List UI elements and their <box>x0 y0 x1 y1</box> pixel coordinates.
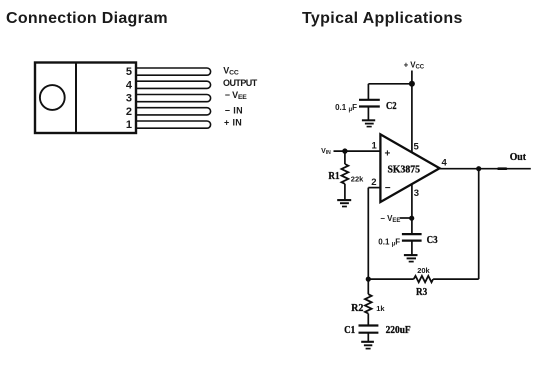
svg-text:3: 3 <box>414 188 419 199</box>
svg-text:−: − <box>385 183 391 194</box>
svg-text:C2: C2 <box>386 100 397 112</box>
svg-text:2: 2 <box>126 106 132 118</box>
svg-text:OUTPUT: OUTPUT <box>223 78 258 88</box>
svg-text:− VEE: − VEE <box>380 214 400 224</box>
svg-text:R2: R2 <box>351 302 364 314</box>
svg-text:− VEE: − VEE <box>225 90 248 101</box>
svg-text:+: + <box>385 149 391 160</box>
svg-text:0.1 μF: 0.1 μF <box>378 237 400 247</box>
svg-text:SK3875: SK3875 <box>388 165 421 176</box>
svg-text:Connection Diagram: Connection Diagram <box>6 10 168 27</box>
svg-text:220uF: 220uF <box>386 325 411 336</box>
svg-text:R1: R1 <box>328 170 339 182</box>
svg-text:22k: 22k <box>351 175 364 184</box>
svg-text:3: 3 <box>126 93 132 105</box>
svg-text:C3: C3 <box>427 234 438 246</box>
svg-text:2: 2 <box>371 177 376 188</box>
svg-text:Out: Out <box>510 151 527 163</box>
svg-text:5: 5 <box>414 141 420 152</box>
svg-text:1k: 1k <box>376 304 385 313</box>
svg-text:1: 1 <box>126 119 132 131</box>
svg-text:+ VCC: + VCC <box>404 61 425 71</box>
svg-text:0.1 μF: 0.1 μF <box>335 103 357 113</box>
svg-text:4: 4 <box>126 79 133 91</box>
svg-text:5: 5 <box>126 66 132 78</box>
svg-text:20k: 20k <box>417 266 430 275</box>
svg-text:R3: R3 <box>416 286 428 298</box>
svg-text:− IN: − IN <box>225 105 243 115</box>
svg-text:Typical Applications: Typical Applications <box>302 10 463 27</box>
svg-text:4: 4 <box>442 158 448 169</box>
svg-text:1: 1 <box>372 140 378 151</box>
svg-text:VCC: VCC <box>223 65 239 76</box>
svg-text:VIN: VIN <box>321 148 331 156</box>
svg-text:C1: C1 <box>344 324 355 336</box>
svg-text:+ IN: + IN <box>224 117 242 127</box>
